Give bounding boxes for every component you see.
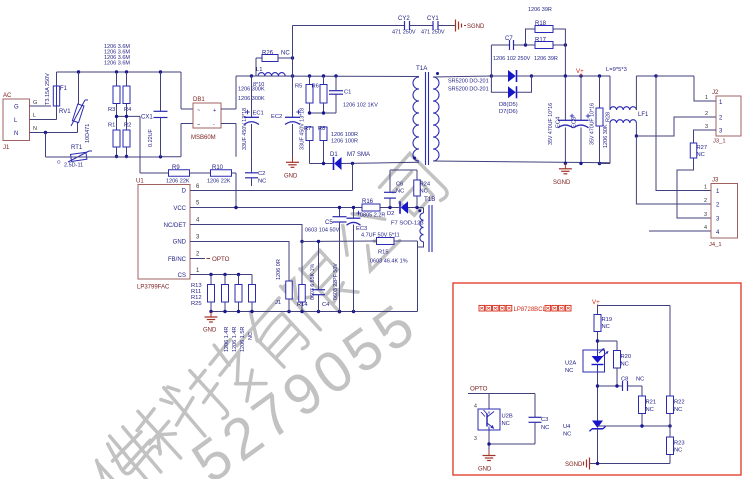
svg-text:0603 104 50V: 0603 104 50V	[305, 228, 340, 234]
svg-text:FB/NC: FB/NC	[168, 257, 187, 263]
svg-text:R19: R19	[602, 317, 613, 323]
svg-text:OPTO: OPTO	[212, 256, 230, 263]
svg-text:U1: U1	[136, 179, 144, 185]
svg-text:R1: R1	[108, 123, 115, 129]
svg-text:10D471: 10D471	[85, 124, 91, 143]
svg-text:EC4: EC4	[556, 116, 562, 128]
svg-text:T1B: T1B	[424, 196, 435, 203]
svg-text:V+: V+	[592, 299, 600, 306]
svg-text:D1: D1	[330, 152, 338, 158]
svg-text:~: ~	[197, 123, 200, 129]
svg-text:V+: V+	[576, 68, 584, 75]
svg-text:R3: R3	[108, 107, 115, 113]
svg-text:1206 100R: 1206 100R	[331, 132, 358, 138]
svg-text:CX1: CX1	[141, 115, 153, 121]
svg-text:4: 4	[704, 225, 707, 231]
svg-text:N: N	[14, 131, 18, 137]
svg-text:0.22UF: 0.22UF	[148, 128, 154, 147]
svg-text:J4_1: J4_1	[709, 242, 722, 248]
svg-text:NC: NC	[674, 448, 682, 454]
svg-text:J1: J1	[3, 145, 10, 151]
svg-text:LF1: LF1	[638, 112, 649, 118]
svg-text:L: L	[33, 113, 36, 119]
svg-text:2: 2	[705, 111, 708, 117]
svg-text:R2: R2	[124, 123, 131, 129]
svg-text:NC: NC	[563, 432, 571, 438]
svg-text:C1: C1	[344, 90, 351, 96]
svg-text:4.7UF 50V 5*11: 4.7UF 50V 5*11	[361, 233, 400, 239]
svg-text:J2: J2	[712, 90, 719, 96]
svg-text:SGND: SGND	[553, 180, 571, 186]
svg-text:1206 1.4R: 1206 1.4R	[224, 327, 230, 352]
svg-text:RT1: RT1	[71, 145, 83, 151]
svg-text:~: ~	[197, 108, 200, 114]
svg-text:R24: R24	[420, 182, 431, 188]
svg-text:M7 SMA: M7 SMA	[347, 152, 370, 158]
svg-text:EC5: EC5	[572, 117, 578, 128]
svg-text:NC: NC	[636, 377, 644, 383]
svg-text:R10: R10	[212, 165, 224, 171]
svg-text:R26: R26	[262, 51, 274, 57]
svg-text:R7: R7	[304, 126, 311, 132]
svg-text:NC: NC	[281, 51, 290, 57]
svg-text:C5: C5	[325, 220, 333, 226]
svg-text:NC/DET: NC/DET	[164, 223, 187, 229]
svg-text:1: 1	[705, 95, 708, 101]
svg-text:L1: L1	[256, 67, 262, 73]
svg-text:EC3: EC3	[356, 226, 367, 232]
svg-text:+: +	[213, 108, 216, 114]
svg-text:1206 102 1KV: 1206 102 1KV	[343, 103, 378, 109]
svg-text:3: 3	[704, 212, 707, 218]
svg-text:R8: R8	[318, 126, 325, 132]
svg-text:NC: NC	[502, 421, 510, 427]
svg-text:G: G	[33, 100, 37, 106]
svg-text:GND: GND	[478, 467, 492, 473]
svg-text:C3: C3	[541, 417, 548, 423]
svg-text:R21: R21	[646, 400, 657, 406]
svg-text:D8(D5): D8(D5)	[499, 102, 518, 108]
svg-text:NC: NC	[565, 368, 573, 374]
svg-text:R23: R23	[674, 441, 685, 447]
svg-text:NC: NC	[621, 362, 629, 368]
svg-text:R4: R4	[124, 107, 132, 113]
svg-text:N: N	[33, 126, 37, 132]
svg-text:GND: GND	[284, 174, 298, 180]
svg-text:J1: J1	[275, 300, 281, 306]
svg-text:D2: D2	[387, 211, 394, 217]
svg-text:1206 102 250V: 1206 102 250V	[493, 56, 531, 62]
svg-text:D: D	[182, 189, 187, 195]
svg-text:L=9*5*3: L=9*5*3	[606, 67, 627, 73]
svg-text:U2A: U2A	[565, 361, 576, 367]
svg-text:CY2: CY2	[398, 16, 410, 22]
svg-text:VCC: VCC	[173, 206, 186, 212]
svg-text:F1: F1	[60, 86, 68, 92]
svg-text:R27: R27	[697, 145, 708, 151]
svg-text:C2: C2	[258, 171, 265, 177]
svg-text:1206 22K: 1206 22K	[207, 179, 231, 185]
svg-text:LP3799FAC: LP3799FAC	[137, 285, 170, 291]
svg-text:T1A: T1A	[416, 65, 428, 72]
svg-text:4: 4	[474, 404, 477, 410]
svg-text:R15: R15	[378, 250, 389, 256]
svg-text:2.5D-11: 2.5D-11	[64, 163, 83, 169]
svg-text:OPTO: OPTO	[470, 386, 488, 393]
svg-text:35V 470UF 10*16: 35V 470UF 10*16	[548, 103, 554, 145]
svg-text:33UF 450V 13*18: 33UF 450V 13*18	[242, 108, 248, 150]
svg-text:2: 2	[704, 198, 707, 204]
svg-text:J3_1: J3_1	[713, 139, 726, 145]
svg-text:0805 2.2R: 0805 2.2R	[360, 213, 385, 219]
svg-text:1206 0R: 1206 0R	[276, 259, 282, 280]
svg-text:DB1: DB1	[193, 97, 205, 103]
svg-text:SGND: SGND	[467, 24, 485, 30]
svg-text:1206 39R: 1206 39R	[528, 7, 552, 13]
svg-text:R25: R25	[191, 301, 202, 307]
svg-text:NC: NC	[258, 179, 266, 185]
svg-text:D7(D6): D7(D6)	[499, 109, 518, 115]
svg-text:LP8728BCL: LP8728BCL	[514, 307, 547, 313]
svg-text:C6: C6	[396, 182, 403, 188]
svg-text:R22: R22	[674, 400, 685, 406]
svg-text:1206 1.4R: 1206 1.4R	[232, 327, 238, 352]
svg-text:AC: AC	[3, 93, 12, 99]
svg-text:EC1: EC1	[253, 111, 264, 117]
svg-text:SR5200 DO-201: SR5200 DO-201	[448, 79, 489, 85]
svg-text:U4: U4	[563, 424, 571, 430]
svg-text:O: O	[57, 160, 61, 165]
svg-text:C7: C7	[505, 36, 513, 42]
svg-text:1206 1.5R: 1206 1.5R	[240, 327, 246, 352]
svg-text:1206 300K: 1206 300K	[238, 96, 265, 102]
svg-text:R9: R9	[172, 165, 180, 171]
svg-text:1206 100R: 1206 100R	[331, 139, 358, 145]
svg-text:1206 300K: 1206 300K	[238, 87, 265, 93]
svg-text:SGND: SGND	[565, 462, 583, 468]
svg-text:35V 470UF 10*16: 35V 470UF 10*16	[590, 103, 596, 145]
svg-text:RV1: RV1	[59, 109, 71, 115]
svg-text:C8: C8	[621, 377, 628, 383]
svg-text:NC: NC	[541, 425, 549, 431]
svg-text:0603 22PF 50V: 0603 22PF 50V	[333, 263, 339, 300]
svg-text:1206 3.6M: 1206 3.6M	[104, 61, 130, 67]
svg-text:R6: R6	[312, 84, 319, 90]
svg-text:NC: NC	[420, 189, 428, 195]
svg-text:NC: NC	[674, 407, 682, 413]
svg-text:0603 46.4K 1%: 0603 46.4K 1%	[370, 259, 408, 265]
svg-text:471 250V: 471 250V	[421, 30, 445, 36]
svg-text:SR5200 DO-201: SR5200 DO-201	[448, 87, 489, 93]
svg-text:GND: GND	[203, 328, 217, 334]
svg-text:1206 22K: 1206 22K	[166, 179, 190, 185]
svg-text:T3.15A 250V: T3.15A 250V	[45, 73, 51, 105]
svg-text:G: G	[14, 105, 19, 111]
svg-text:C4: C4	[322, 302, 330, 308]
svg-text:R17: R17	[535, 38, 547, 44]
svg-text:U2B: U2B	[502, 414, 513, 420]
svg-text:3: 3	[474, 436, 477, 442]
svg-text:1206 39R: 1206 39R	[534, 56, 558, 62]
svg-text:1206 30K: 1206 30K	[603, 124, 609, 148]
svg-text:NC: NC	[248, 332, 254, 340]
svg-text:R20: R20	[621, 354, 632, 360]
svg-text:CS: CS	[178, 273, 186, 279]
svg-text:CY1: CY1	[427, 16, 439, 22]
svg-text:F7 SOD-123: F7 SOD-123	[391, 221, 424, 227]
svg-text:GND: GND	[173, 240, 187, 246]
svg-text:NC: NC	[646, 407, 654, 413]
svg-text:471 250V: 471 250V	[392, 30, 416, 36]
svg-text:R18: R18	[535, 21, 547, 27]
svg-text:NC: NC	[602, 324, 610, 330]
svg-text:R14: R14	[297, 302, 308, 308]
svg-text:R5: R5	[295, 84, 302, 90]
svg-text:NC: NC	[396, 189, 404, 195]
svg-text:EC2: EC2	[271, 114, 282, 120]
svg-text:MSB60M: MSB60M	[191, 135, 216, 141]
svg-text:1: 1	[704, 185, 707, 191]
svg-text:-: -	[213, 122, 215, 128]
svg-text:3: 3	[705, 124, 708, 130]
svg-text:J3: J3	[712, 178, 719, 184]
svg-text:NC: NC	[697, 152, 705, 158]
svg-text:R16: R16	[362, 199, 374, 205]
